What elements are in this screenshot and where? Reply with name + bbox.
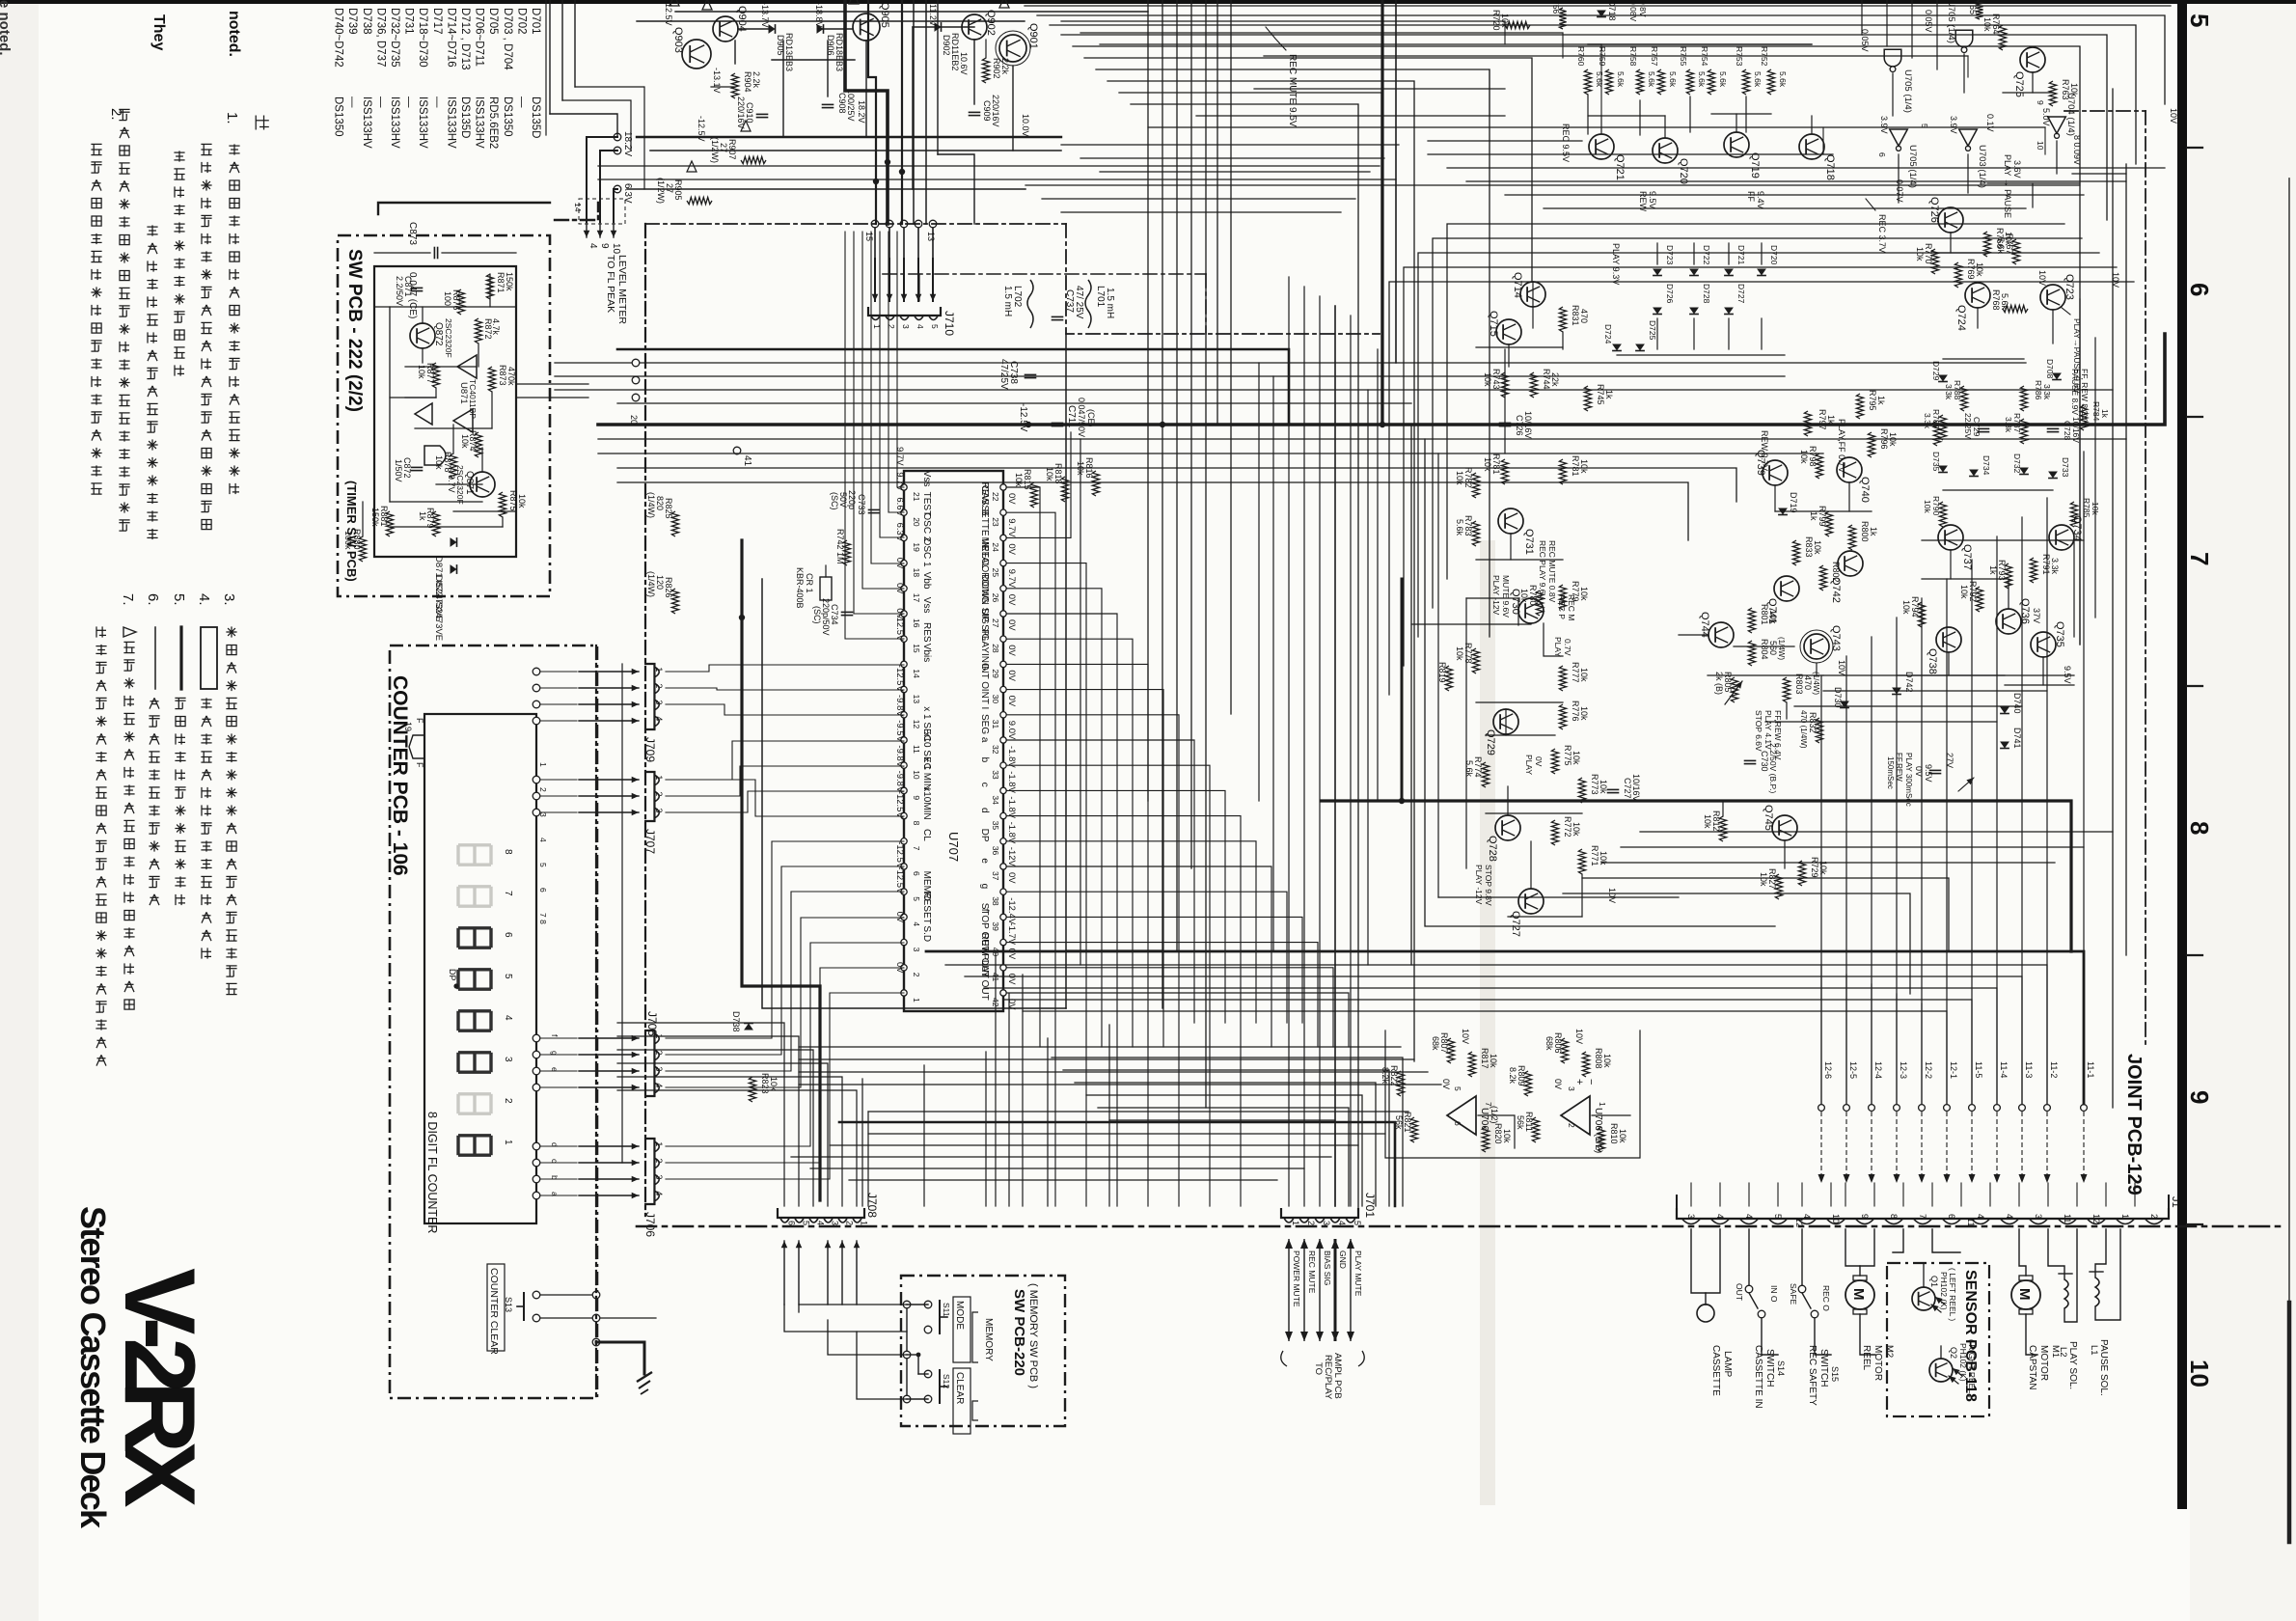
svg-text:10V: 10V — [1607, 888, 1617, 903]
svg-text:C730: C730 — [1760, 751, 1769, 772]
svg-text:SWITCH: SWITCH — [1764, 1349, 1775, 1387]
svg-text:D721: D721 — [1736, 245, 1746, 265]
svg-text:SW PCB - 222 (2/2): SW PCB - 222 (2/2) — [344, 249, 365, 412]
U707 pin 17 Vbb — [901, 586, 907, 591]
arrows into J710 — [874, 259, 876, 301]
svg-text:33: 33 — [991, 770, 1000, 780]
svg-text:10V: 10V — [2037, 270, 2047, 286]
verticals to diode row — [1656, 243, 1658, 264]
U707 pin 29 PLAYING — [1000, 661, 1006, 667]
stray vertical drops from top fan — [1489, 69, 1490, 116]
resistor R796 — [1868, 432, 1874, 457]
svg-text:9: 9 — [912, 795, 921, 800]
svg-text:10k: 10k — [460, 434, 470, 449]
svg-text:150k: 150k — [505, 272, 514, 291]
connector J701 — [1281, 1208, 1358, 1218]
long vertical bus group center — [1147, 0, 1149, 801]
svg-text:DP: DP — [448, 969, 457, 981]
svg-text:30: 30 — [991, 695, 1000, 704]
svg-text:( RIGHT REEL ): ( RIGHT REEL ) — [1967, 1339, 1977, 1398]
ruler tick — [2187, 147, 2202, 149]
svg-text:-12.5V: -12.5V — [1018, 403, 1028, 432]
svg-text:10k: 10k — [1572, 751, 1581, 765]
arrows below J708 — [783, 1241, 785, 1305]
svg-text:INT O: INT O — [979, 664, 990, 690]
svg-text:0V: 0V — [1441, 1079, 1451, 1089]
svg-text:1k: 1k — [1809, 511, 1818, 521]
resistor R777 — [1559, 666, 1566, 691]
svg-text:3: 3 — [1322, 1221, 1331, 1225]
svg-text:CAPSTAN: CAPSTAN — [2027, 1345, 2037, 1390]
crystal CR1 — [820, 577, 832, 600]
resistor R810 — [1598, 1127, 1604, 1152]
svg-text:9.7V: 9.7V — [1006, 569, 1017, 589]
capacitor C733 — [869, 508, 880, 510]
7-segment digit 7 — [458, 887, 491, 906]
resistor R812 — [1719, 816, 1726, 841]
svg-text:16: 16 — [912, 618, 921, 628]
svg-text:68k: 68k — [1544, 1036, 1554, 1051]
resistor R790 — [1939, 502, 1946, 527]
svg-text:765: 765 — [1968, 0, 1978, 14]
note 4 kanji column — [201, 699, 211, 701]
svg-text:4: 4 — [654, 716, 664, 721]
svg-text:6: 6 — [1947, 1214, 1956, 1219]
transistor Q718 — [1799, 134, 1824, 159]
resistor R823 — [749, 1077, 755, 1102]
display decimal point DP — [453, 983, 458, 988]
svg-text:8: 8 — [1889, 1214, 1899, 1219]
svg-text:47/ 25V: 47/ 25V — [1074, 286, 1084, 319]
left vertical risers from trunk — [1504, 349, 1506, 453]
inverter gate U871 C — [415, 403, 432, 425]
svg-text:R817: R817 — [1480, 1048, 1490, 1069]
svg-text:d: d — [979, 808, 990, 813]
svg-text:PLAY 9.3V: PLAY 9.3V — [1611, 243, 1621, 285]
svg-text:-9.5V: -9.5V — [894, 720, 905, 742]
svg-text:68k: 68k — [1431, 1036, 1440, 1051]
svg-text:PH102 (K): PH102 (K) — [1958, 1343, 1968, 1382]
transistor Q721 — [1589, 134, 1614, 159]
svg-text:D738: D738 — [731, 1011, 741, 1032]
net node 11-1 — [2081, 1105, 2088, 1112]
svg-text:10k: 10k — [1045, 467, 1054, 481]
svg-text:-13.7V: -13.7V — [760, 2, 770, 28]
opamp block outline wires — [1385, 1030, 1640, 1158]
wire sw pcb 222 internals — [374, 306, 516, 308]
svg-text:R745: R745 — [1596, 384, 1605, 405]
svg-text:1: 1 — [654, 667, 664, 672]
resistor R811 — [1532, 1117, 1539, 1142]
svg-text:0V: 0V — [1006, 696, 1017, 707]
svg-text:Q724: Q724 — [1955, 305, 1967, 331]
svg-text:12-6: 12-6 — [1823, 1061, 1833, 1079]
svg-text:12: 12 — [1794, 1218, 1804, 1227]
svg-text:RD18EB3: RD18EB3 — [834, 33, 844, 71]
U707 left pin stair to J709-J707 — [897, 232, 904, 487]
connector J707 — [644, 772, 654, 821]
resistor R769 — [1954, 262, 1961, 288]
svg-text:10.0V: 10.0V — [1021, 114, 1030, 137]
svg-text:D735: D735 — [1931, 452, 1941, 472]
svg-text:10k: 10k — [434, 455, 444, 470]
note header 注 — [255, 116, 257, 130]
center vertical group x1300-1420 — [1258, 363, 1260, 801]
svg-text:12-1: 12-1 — [1949, 1061, 1958, 1079]
svg-text:INT I: INT I — [979, 689, 990, 709]
svg-text:9.7V: 9.7V — [1006, 518, 1017, 537]
transistor Q902 — [962, 14, 987, 40]
extra verticals mid bottom — [1022, 975, 1024, 1206]
svg-text:3.3k: 3.3k — [2050, 558, 2060, 575]
svg-text:g: g — [550, 1051, 560, 1056]
resistor R784 — [2080, 405, 2087, 430]
transistor Q734 — [2049, 525, 2074, 550]
svg-text:b: b — [979, 757, 990, 763]
svg-text:R772: R772 — [1563, 816, 1572, 838]
svg-text:3.3k: 3.3k — [1923, 413, 1932, 429]
transistor Q744 — [1708, 622, 1734, 647]
J710 feed lines — [874, 224, 876, 259]
svg-text:(1/4W): (1/4W) — [1777, 637, 1786, 660]
transistor Q736 — [1996, 609, 2021, 634]
svg-text:10/16V: 10/16V — [1631, 774, 1641, 802]
svg-text:Q736: Q736 — [2019, 598, 2031, 624]
dash-dot pcb boundary right — [2145, 111, 2146, 1047]
transistor Q740 — [1837, 457, 1862, 482]
svg-text:7: 7 — [1484, 1102, 1493, 1107]
svg-text:S12: S12 — [942, 1374, 951, 1388]
resistor R904 — [731, 73, 738, 98]
wire sw222 to J20 stub — [516, 383, 588, 385]
7-segment digit 2 — [458, 1094, 491, 1113]
transistor Q872 — [410, 323, 435, 348]
svg-text:e: e — [550, 1067, 560, 1072]
svg-text:REEL: REEL — [1861, 1345, 1872, 1371]
svg-text:3: 3 — [912, 948, 921, 952]
transistor Q714 — [1520, 282, 1545, 307]
svg-text:DS135D: DS135D — [459, 96, 471, 138]
svg-text:1k: 1k — [2100, 409, 2110, 419]
svg-text:150mSec: 150mSec — [1886, 756, 1895, 789]
svg-text:R875: R875 — [508, 490, 518, 511]
U707 pin 9 x 1 MIN — [901, 787, 907, 793]
left edge node circles 20 — [632, 359, 640, 367]
svg-text:2: 2 — [503, 1098, 513, 1104]
svg-text:5.: 5. — [171, 593, 187, 606]
svg-text:11-5: 11-5 — [1974, 1061, 1983, 1078]
svg-text:R776: R776 — [1571, 701, 1580, 722]
svg-text:100: 100 — [443, 291, 452, 306]
svg-text:4: 4 — [588, 243, 598, 249]
svg-text:MUTE 9.6V: MUTE 9.6V — [1501, 575, 1511, 618]
capacitor C873 — [433, 248, 435, 259]
net node 12-1 — [1944, 1105, 1951, 1112]
svg-text:15: 15 — [912, 644, 921, 653]
svg-text:12-4: 12-4 — [1873, 1061, 1883, 1079]
svg-text:STOP 6.6V: STOP 6.6V — [1754, 710, 1763, 752]
wires around J710 going right — [941, 348, 1148, 350]
svg-text:-12.5V: -12.5V — [894, 866, 905, 894]
transistor Q903 — [682, 40, 711, 69]
diode D733 — [2048, 472, 2058, 479]
resistor R786 — [2020, 386, 2027, 411]
svg-text:1: 1 — [503, 1140, 513, 1145]
svg-text:4: 4 — [654, 1191, 664, 1195]
brace TO REC/PLAY AMPL PCB — [1281, 1351, 1365, 1366]
svg-text:M: M — [2016, 1288, 2033, 1301]
U707 pin 35 d — [1000, 812, 1006, 818]
svg-text:RESET: RESET — [921, 892, 932, 923]
arrows to FL meter — [586, 222, 588, 237]
capacitor C737 — [1052, 316, 1063, 317]
U707 pin 18 OSC 1 — [901, 560, 907, 565]
svg-text:10k: 10k — [1901, 600, 1911, 615]
capacitor C734 — [842, 611, 853, 613]
svg-text:14: 14 — [912, 669, 921, 678]
U707 pin 39 f — [1000, 914, 1006, 920]
svg-text:C908: C908 — [837, 93, 847, 114]
svg-text:7: 7 — [912, 846, 921, 851]
diode D732 — [2019, 468, 2029, 475]
svg-text:3: 3 — [654, 1174, 664, 1179]
op-amp U706 (1/2) B — [1561, 1096, 1590, 1135]
transistor Q737 — [1938, 525, 1963, 550]
svg-text:6: 6 — [1453, 1121, 1462, 1126]
main thick trunk — [598, 334, 2165, 425]
SENSOR PCB-118 dash-dot box — [1887, 1263, 1989, 1416]
counter clear switch S13 — [533, 1291, 540, 1299]
svg-text:e noted.: e noted. — [0, 0, 13, 56]
diode D729 — [1938, 375, 1948, 382]
svg-text:26: 26 — [991, 593, 1000, 603]
u704 link — [2072, 173, 2126, 175]
svg-text:6: 6 — [787, 1221, 797, 1225]
arrows into J706 — [579, 1145, 639, 1147]
svg-text:1.: 1. — [224, 112, 240, 124]
wires J708 to sw220 — [784, 1305, 907, 1332]
pause solenoid L1 — [2095, 1278, 2099, 1306]
svg-text:-18.8V: -18.8V — [814, 2, 824, 28]
resistor R878 — [450, 453, 456, 479]
joint feed verticals from mid — [1820, 965, 1822, 1104]
transistor Q743 — [1804, 634, 1829, 659]
svg-text:11: 11 — [912, 745, 921, 754]
svg-text:2: 2 — [654, 1158, 664, 1163]
svg-text:PLAY 300mSec: PLAY 300mSec — [1904, 753, 1913, 807]
phototransistor Q2 — [1929, 1359, 1953, 1382]
svg-text:Q727: Q727 — [1510, 911, 1521, 937]
U707 pin 1 nc — [901, 990, 907, 996]
svg-text:3.3k: 3.3k — [1944, 384, 1954, 400]
svg-text:Q744: Q744 — [1699, 612, 1710, 638]
counter inner display box — [424, 714, 536, 1223]
svg-text:10k: 10k — [1923, 500, 1932, 513]
svg-text:2: 2 — [538, 787, 548, 792]
svg-text:10k: 10k — [1572, 822, 1581, 837]
svg-text:10k: 10k — [1602, 1054, 1612, 1068]
resistor R822 — [1397, 1071, 1404, 1096]
svg-text:5.6k: 5.6k — [1616, 71, 1626, 88]
svg-text:7: 7 — [2185, 552, 2214, 565]
resistor R794 — [1918, 602, 1925, 627]
svg-text:6: 6 — [912, 871, 921, 876]
svg-text:11-3: 11-3 — [2024, 1061, 2034, 1078]
svg-text:10k: 10k — [1599, 780, 1608, 794]
svg-text:1.5 mH: 1.5 mH — [1105, 288, 1115, 318]
svg-text:R797: R797 — [1818, 409, 1827, 430]
svg-text:0.1V: 0.1V — [1985, 114, 1995, 132]
op-amp U871 gate B — [453, 409, 473, 432]
svg-text:12: 12 — [2091, 1214, 2101, 1223]
7-segment digit 8 — [458, 845, 491, 865]
svg-text:STOP 9.8V: STOP 9.8V — [1484, 865, 1493, 906]
svg-text:3.6V: 3.6V — [2012, 160, 2022, 179]
svg-text:ISS133HV: ISS133HV — [361, 96, 372, 149]
svg-text:7: 7 — [1918, 1214, 1927, 1219]
svg-text:D722: D722 — [1702, 245, 1711, 265]
svg-text:PLAY MUTE: PLAY MUTE — [1353, 1250, 1363, 1297]
svg-text:PAUSE 8.9V: PAUSE 8.9V — [2070, 369, 2080, 415]
svg-text:V-2RX: V-2RX — [103, 1268, 215, 1507]
svg-text:29: 29 — [991, 669, 1000, 678]
svg-text:5: 5 — [503, 974, 513, 979]
U707 pin 32 SEG a — [1000, 737, 1006, 743]
resistor R798 — [1816, 453, 1822, 479]
svg-text:9: 9 — [2036, 100, 2045, 105]
svg-text:( MEMORY SW PCB ): ( MEMORY SW PCB ) — [1027, 1283, 1039, 1388]
svg-text:R808: R808 — [1594, 1048, 1603, 1069]
display anode notch — [409, 735, 424, 758]
svg-text:PLAY: PLAY — [1553, 637, 1563, 657]
resistor R789 — [1939, 415, 1946, 440]
resistor R831 — [1559, 307, 1566, 332]
svg-text:b: b — [550, 1175, 560, 1180]
svg-text:D742: D742 — [1904, 672, 1914, 693]
diode D872 — [451, 564, 457, 574]
7-segment digit 4 — [458, 1011, 491, 1030]
svg-text:10k: 10k — [1959, 585, 1969, 599]
svg-text:13: 13 — [912, 695, 921, 704]
U707 pin 30 INT O — [1000, 686, 1006, 692]
svg-text:x10MIN: x10MIN — [921, 786, 932, 819]
svg-text:12-5: 12-5 — [1848, 1061, 1858, 1079]
diode D734 — [1969, 470, 1979, 477]
svg-text:5: 5 — [1353, 1221, 1362, 1225]
svg-text:R804: R804 — [1760, 639, 1769, 660]
svg-text:5.6k: 5.6k — [1996, 237, 2006, 255]
svg-text:LAMP: LAMP — [1722, 1351, 1733, 1378]
svg-text:REC 9.5V: REC 9.5V — [1561, 124, 1571, 162]
diode field D720-D728 — [1653, 269, 1662, 276]
svg-text:R775: R775 — [1563, 745, 1572, 766]
svg-text:Vss: Vss — [921, 471, 932, 487]
inverter U705 (1/4) c — [1890, 129, 1908, 151]
U707 pin 2 nc — [901, 965, 907, 971]
svg-text:D729: D729 — [1931, 361, 1941, 381]
power horizontal links — [772, 59, 855, 61]
U707 pin 27 DOWN SIG — [1000, 611, 1006, 617]
verticals to J701 — [1288, 277, 1290, 1206]
U707 pin 31 INT I — [1000, 712, 1006, 718]
svg-text:MOTOR: MOTOR — [2038, 1345, 2049, 1381]
svg-text:0V: 0V — [1006, 974, 1017, 985]
ruler tick — [2187, 954, 2202, 956]
net node 12-4 — [1869, 1105, 1875, 1112]
resistor R874 — [475, 432, 481, 457]
resistor R776 — [1559, 704, 1566, 729]
svg-text:2: 2 — [654, 1050, 664, 1055]
svg-text:S11: S11 — [942, 1303, 951, 1317]
svg-text:Q745: Q745 — [1763, 805, 1774, 831]
capacitor C908 — [823, 103, 834, 105]
inductor L701 — [1085, 280, 1091, 328]
svg-text:39: 39 — [991, 921, 1000, 931]
svg-text:TO: TO — [1313, 1362, 1324, 1375]
diode D902 — [935, 22, 942, 32]
svg-text:22k: 22k — [1550, 372, 1560, 387]
resistor R820 — [1482, 1127, 1489, 1152]
svg-text:5.6k: 5.6k — [1647, 71, 1656, 88]
svg-text:Vbb: Vbb — [921, 572, 932, 590]
svg-text:U871: U871 — [458, 382, 469, 404]
svg-text:U707: U707 — [946, 832, 961, 862]
svg-text:Q743: Q743 — [1830, 625, 1842, 651]
U707 pin 8 x10MIN — [901, 812, 907, 818]
svg-text:6.: 6. — [145, 593, 161, 606]
svg-text:Q872: Q872 — [433, 322, 444, 346]
resistor R809 — [1524, 1071, 1531, 1096]
svg-text:CR 1: CR 1 — [805, 573, 814, 593]
resistor R768 — [2003, 305, 2028, 312]
diode D740 — [2000, 707, 2009, 714]
U707 pin 4 RESET — [901, 914, 907, 920]
U707 pin 25 METAL — [1000, 560, 1006, 565]
svg-text:U705 (1/4): U705 (1/4) — [1902, 69, 1913, 113]
svg-text:d: d — [550, 1142, 560, 1147]
svg-text:10: 10 — [912, 770, 921, 780]
capacitor C728 — [2048, 427, 2059, 429]
svg-text:10k: 10k — [1579, 587, 1589, 601]
svg-text:CASSETTE: CASSETTE — [1710, 1345, 1721, 1396]
U707 pin 19 OSC 2 — [901, 535, 907, 540]
svg-text:D872 IS2473VE: D872 IS2473VE — [433, 575, 444, 641]
svg-text:FF,REW: FF,REW — [1895, 753, 1903, 782]
note 1 line 1 kanji column — [229, 145, 239, 147]
svg-text:12-2: 12-2 — [1924, 1061, 1933, 1079]
resistor R807 — [1447, 1038, 1454, 1063]
svg-text:R871: R871 — [496, 272, 506, 293]
resistor R742 — [843, 540, 850, 565]
svg-text:0V: 0V — [1553, 1079, 1563, 1089]
resistor R875 — [499, 492, 506, 517]
svg-text:—: — — [374, 96, 386, 108]
svg-text:REC MUTE 0.8V: REC MUTE 0.8V — [1547, 540, 1557, 603]
mid-low horizontal bundle to joint nodes — [926, 951, 2084, 1104]
svg-text:10k: 10k — [1759, 872, 1768, 887]
svg-text:5.6k: 5.6k — [1595, 71, 1604, 88]
svg-text:CASSETTE IN: CASSETTE IN — [1753, 1345, 1763, 1409]
resistor R784b — [1559, 459, 1566, 484]
resistor R801 — [1748, 608, 1755, 633]
svg-text:REC MUTE: REC MUTE — [1307, 1250, 1317, 1294]
timing capacitor cluster — [1930, 769, 1941, 771]
svg-text:PLAY -12V: PLAY -12V — [1474, 865, 1484, 905]
svg-text:2: 2 — [912, 973, 921, 977]
svg-text:9.0V: 9.0V — [1006, 721, 1017, 740]
svg-text:R795: R795 — [1868, 390, 1877, 411]
svg-text:Q734: Q734 — [2071, 515, 2083, 541]
